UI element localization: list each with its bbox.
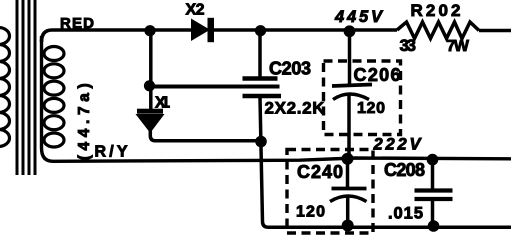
svg-text:.015: .015	[388, 205, 423, 223]
wire: R202 right side to edge	[479, 29, 511, 33]
wire: C203 bottom plate down through node C to bottom rail	[260, 98, 511, 227]
wire: X1 anode down and right to node C	[150, 131, 261, 141]
wire: C206 to 222V rail	[347, 93, 351, 158]
wire: node A down to diode X1	[149, 30, 153, 109]
wire: C203 top plate up to top rail	[258, 30, 262, 77]
capacitor C206 (electrolytic, in dashed box)	[332, 85, 372, 87]
junction node bottom rail / C240 bottom	[342, 220, 354, 232]
transformer core laminations	[17, 0, 35, 175]
svg-text:RED: RED	[60, 15, 94, 32]
wire: 445V node down to C206	[348, 31, 352, 85]
svg-text:222V: 222V	[373, 136, 423, 154]
svg-text:C208: C208	[384, 160, 425, 180]
transformer T1 secondary winding	[40, 36, 43, 148]
svg-text:7W: 7W	[447, 38, 470, 55]
resistor R202 zigzag	[397, 22, 479, 39]
junction node (top rail / C203 top plate)	[255, 25, 266, 36]
svg-text:X1: X1	[155, 95, 170, 112]
junction node bottom rail / C208 bottom	[428, 220, 440, 232]
junction node 222V rail / C208 top	[427, 154, 439, 166]
junction node (X1 branch / C203 middle)	[144, 80, 155, 91]
svg-text:C240: C240	[297, 162, 343, 182]
capacitor C208	[431, 159, 435, 189]
junction node 445V	[344, 25, 356, 37]
capacitor C203 (dual 2x2.2K)	[243, 76, 278, 80]
junction node A (top rail / X1 branch)	[144, 25, 155, 36]
dashed box around C206	[324, 61, 401, 135]
svg-text:(44.7a): (44.7a)	[76, 83, 93, 160]
capacitor C240 (electrolytic, in dashed box)	[346, 158, 350, 187]
svg-text:X2: X2	[186, 1, 205, 18]
junction node 222V rail / C240 top	[342, 153, 354, 165]
svg-text:33: 33	[400, 36, 417, 55]
junction node C (X1 anode / C203 bottom)	[255, 136, 267, 148]
wire: C203 middle plate wire from node at x149	[149, 85, 280, 89]
svg-text:C206: C206	[354, 65, 401, 85]
diode X1 (cathode bar up, arrow down)	[136, 109, 165, 133]
transformer T1 primary winding (left, cut off at edge)	[0, 28, 10, 147]
svg-text:C203: C203	[269, 59, 311, 79]
svg-text:2X2.2K: 2X2.2K	[265, 99, 326, 118]
dashed box around C240	[287, 150, 373, 234]
svg-text:120: 120	[296, 204, 325, 221]
wire: secondary bottom lead / R-Y rail	[42, 148, 511, 161]
svg-text:R/Y: R/Y	[95, 144, 128, 161]
wire: top rail diode X2 cathode to 445V node and R202	[214, 28, 397, 32]
svg-text:120: 120	[357, 100, 385, 117]
diode X2	[191, 18, 214, 42]
svg-text:445V: 445V	[334, 8, 384, 26]
wire: secondary top lead to top rail	[42, 30, 192, 42]
